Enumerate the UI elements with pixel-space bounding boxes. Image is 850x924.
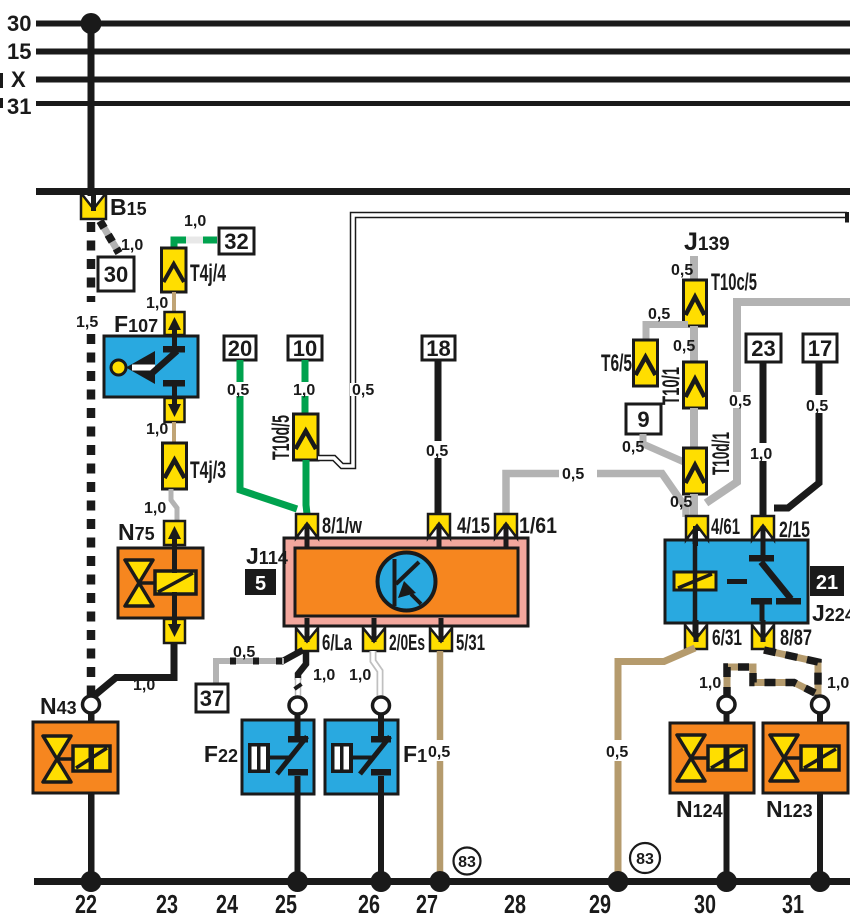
- svg-text:23: 23: [751, 336, 775, 361]
- svg-text:30: 30: [694, 889, 716, 919]
- svg-text:1,0: 1,0: [184, 213, 206, 230]
- svg-text:0,5: 0,5: [352, 382, 374, 399]
- wire black/white to track 30 box: [100, 221, 119, 253]
- connector below F107: [165, 398, 185, 422]
- separator line: [36, 188, 850, 195]
- svg-text:0,5: 0,5: [670, 494, 692, 511]
- valve N124: [670, 723, 754, 793]
- wire black 1,0 from 23 to 2/15: [760, 362, 767, 517]
- wire brown 1,0: [172, 292, 176, 312]
- wire from N124 to track 30: [724, 713, 730, 879]
- connector T10d/1: [684, 448, 707, 494]
- svg-text:25: 25: [275, 889, 297, 919]
- svg-text:T6/5: T6/5: [601, 350, 632, 377]
- wire green 0,5 from box 20 to pin 8/1/w: [240, 360, 297, 509]
- connector T4j/3: [163, 443, 187, 489]
- wire thin white 0,5 to top right: [318, 215, 847, 466]
- wire white 1,0 from 2/0Es to F1: [373, 651, 380, 697]
- wire black 0,5 from 17 to 2/15: [774, 362, 819, 508]
- node box 20: [224, 336, 256, 360]
- svg-text:1,0: 1,0: [293, 382, 315, 399]
- svg-text:5: 5: [255, 573, 266, 595]
- junction track 27: [430, 871, 451, 892]
- wire black 0,5 from box 18 to pin 4/15: [435, 360, 442, 514]
- connector T6/5: [634, 340, 658, 386]
- junction track 29: [608, 871, 629, 892]
- bus 30: [36, 21, 850, 27]
- svg-text:T4j/4: T4j/4: [190, 260, 226, 287]
- connector above N75: [164, 521, 185, 545]
- pin 2/15: [752, 516, 774, 540]
- pin 4/61: [686, 516, 708, 540]
- svg-text:0,5: 0,5: [428, 744, 450, 761]
- svg-text:21: 21: [816, 572, 838, 594]
- node box 10: [288, 336, 322, 360]
- svg-text:T10/1: T10/1: [658, 367, 685, 405]
- node junction on bus 30: [81, 13, 102, 34]
- svg-text:30: 30: [7, 11, 31, 36]
- svg-text:2/15: 2/15: [779, 517, 810, 542]
- wire grey 0,5 to box 37: [216, 661, 284, 684]
- connector T10/1: [684, 362, 707, 408]
- svg-text:0,5: 0,5: [622, 439, 644, 456]
- terminal node above F22: [289, 697, 306, 714]
- wire from N123 to track 31: [817, 713, 823, 879]
- svg-text:18: 18: [426, 336, 450, 361]
- node box 17: [803, 334, 837, 362]
- node 21 black box: [810, 566, 844, 596]
- svg-text:1,0: 1,0: [146, 295, 168, 312]
- control unit J114: [284, 538, 528, 626]
- svg-text:5/31: 5/31: [456, 630, 485, 655]
- valve N123: [763, 723, 848, 793]
- svg-text:24: 24: [216, 889, 238, 919]
- svg-text:0,5: 0,5: [671, 262, 693, 279]
- wire grey between T10/1 and T10d/1: [690, 408, 698, 448]
- svg-text:27: 27: [416, 889, 438, 919]
- svg-text:0,5: 0,5: [562, 466, 584, 483]
- wire grey from box 9: [643, 434, 684, 462]
- wire brown/black hatched branch to N124: [727, 667, 815, 696]
- wire grey 0,5: [690, 326, 698, 362]
- svg-text:X: X: [11, 67, 26, 92]
- wire brown 1,0: [172, 422, 176, 443]
- junction track 26: [371, 871, 392, 892]
- connector below N75: [164, 619, 185, 643]
- node 5 black box: [245, 569, 276, 595]
- node box 32: [219, 228, 254, 254]
- wire brown/black hatched from 8/87 to N123: [764, 650, 818, 696]
- svg-text:83: 83: [636, 851, 654, 868]
- svg-text:0,5: 0,5: [673, 338, 695, 355]
- svg-text:T10c/5: T10c/5: [711, 269, 757, 296]
- junction track 22: [81, 871, 102, 892]
- svg-text:0,5: 0,5: [648, 306, 670, 323]
- svg-text:0,5: 0,5: [233, 644, 255, 661]
- edge tick left of X: [0, 73, 3, 88]
- connector B15: [81, 193, 106, 219]
- svg-text:22: 22: [75, 889, 97, 919]
- terminal node above N43: [83, 696, 100, 713]
- wire black from 6/La: [281, 650, 303, 662]
- svg-text:T4j/3: T4j/3: [190, 457, 226, 484]
- wire grey from top right to 4/61: [706, 302, 850, 503]
- node box 23: [746, 334, 781, 362]
- svg-text:8/87: 8/87: [780, 625, 812, 650]
- pin 1/61: [495, 514, 517, 538]
- svg-text:1,0: 1,0: [699, 675, 721, 692]
- svg-text:31: 31: [782, 889, 804, 919]
- pin 8/1/w: [296, 514, 318, 538]
- svg-text:1,0: 1,0: [144, 500, 166, 517]
- bus X: [36, 77, 850, 83]
- svg-text:1,0: 1,0: [349, 667, 371, 684]
- wire grey from pin 1/61 to 4/61: [506, 474, 686, 518]
- wire black/white 1,0 from 6/La to F22: [298, 651, 306, 680]
- svg-text:1,5: 1,5: [76, 314, 98, 331]
- pin 8/87: [752, 625, 774, 649]
- terminal node above N124: [718, 696, 735, 713]
- svg-text:28: 28: [504, 889, 526, 919]
- wire green 1,0 from box 10: [302, 360, 309, 416]
- wire to ground rail track 22: [88, 713, 95, 879]
- wire black/white hatched 1,5 from B15 to N43: [87, 222, 96, 302]
- svg-text:1,0: 1,0: [133, 677, 155, 694]
- svg-text:23: 23: [156, 889, 178, 919]
- terminal node above N123: [812, 696, 829, 713]
- pin 6/31: [685, 625, 707, 649]
- svg-text:2/0Es: 2/0Es: [389, 630, 425, 655]
- wire grey from T6/5: [646, 325, 688, 342]
- connector above F107: [165, 312, 185, 335]
- svg-text:T10d/5: T10d/5: [268, 415, 295, 460]
- junction track 30: [716, 871, 737, 892]
- node box 37: [196, 684, 228, 712]
- wire vertical from bus 30 to B15: [88, 21, 95, 196]
- svg-text:20: 20: [228, 336, 252, 361]
- ground rail: [34, 878, 850, 885]
- relay J224: [665, 540, 808, 623]
- wire green below T10d/5: [306, 460, 307, 514]
- svg-text:0,5: 0,5: [606, 744, 628, 761]
- svg-text:6/31: 6/31: [712, 625, 742, 650]
- pin 2/0Es: [363, 628, 385, 651]
- wire grey to pin 4/61: [690, 494, 698, 517]
- svg-text:30: 30: [104, 262, 128, 287]
- svg-text:1,0: 1,0: [750, 446, 772, 463]
- connector T10d/5: [294, 414, 319, 460]
- svg-text:32: 32: [224, 229, 248, 254]
- connector T10c/5: [684, 280, 707, 326]
- junction track 31: [810, 871, 831, 892]
- wire black from N75 to node: [95, 643, 174, 695]
- svg-text:29: 29: [589, 889, 611, 919]
- svg-text:9: 9: [637, 407, 649, 432]
- node box 18: [422, 336, 455, 360]
- svg-text:4/61: 4/61: [711, 514, 740, 539]
- svg-text:26: 26: [358, 889, 380, 919]
- node box 9: [626, 404, 661, 434]
- node 83 circle: [454, 848, 481, 875]
- terminal node above F1: [373, 697, 390, 714]
- wire grey 1,0: [171, 489, 177, 521]
- pin 5/31: [430, 628, 452, 651]
- svg-text:0,5: 0,5: [227, 382, 249, 399]
- svg-text:37: 37: [200, 686, 224, 711]
- wire brown 0,5 from 6/31 to track 29: [618, 648, 695, 878]
- svg-text:1,0: 1,0: [121, 237, 143, 254]
- junction track 25: [287, 871, 308, 892]
- wire brown 0,5 from 5/31 to track 27: [437, 651, 444, 878]
- node box 30: [98, 257, 134, 291]
- svg-text:0,5: 0,5: [806, 398, 828, 415]
- svg-text:1/61: 1/61: [519, 513, 557, 538]
- node 83 circle: [630, 843, 660, 873]
- edge tick left of 31: [0, 98, 3, 108]
- pin 4/15: [428, 514, 450, 538]
- bus 31: [36, 101, 850, 106]
- bus 15: [36, 49, 850, 55]
- svg-text:8/1/w: 8/1/w: [322, 513, 363, 538]
- pin 6/La: [296, 628, 318, 651]
- svg-text:1,0: 1,0: [827, 675, 849, 692]
- svg-text:10: 10: [293, 336, 317, 361]
- wire grey 0,5: [690, 256, 698, 282]
- svg-text:1,0: 1,0: [313, 667, 335, 684]
- connector T4j/4: [162, 248, 187, 292]
- svg-text:83: 83: [458, 854, 476, 871]
- svg-text:17: 17: [808, 336, 832, 361]
- svg-text:6/La: 6/La: [322, 630, 353, 655]
- svg-text:0,5: 0,5: [729, 393, 751, 410]
- svg-text:1,0: 1,0: [146, 421, 168, 438]
- svg-text:15: 15: [7, 39, 31, 64]
- svg-text:0,5: 0,5: [426, 443, 448, 460]
- svg-text:4/15: 4/15: [457, 513, 490, 538]
- svg-text:T10d/1: T10d/1: [708, 432, 735, 475]
- svg-text:31: 31: [7, 94, 31, 119]
- wire green/white to track 32 box: [174, 240, 217, 250]
